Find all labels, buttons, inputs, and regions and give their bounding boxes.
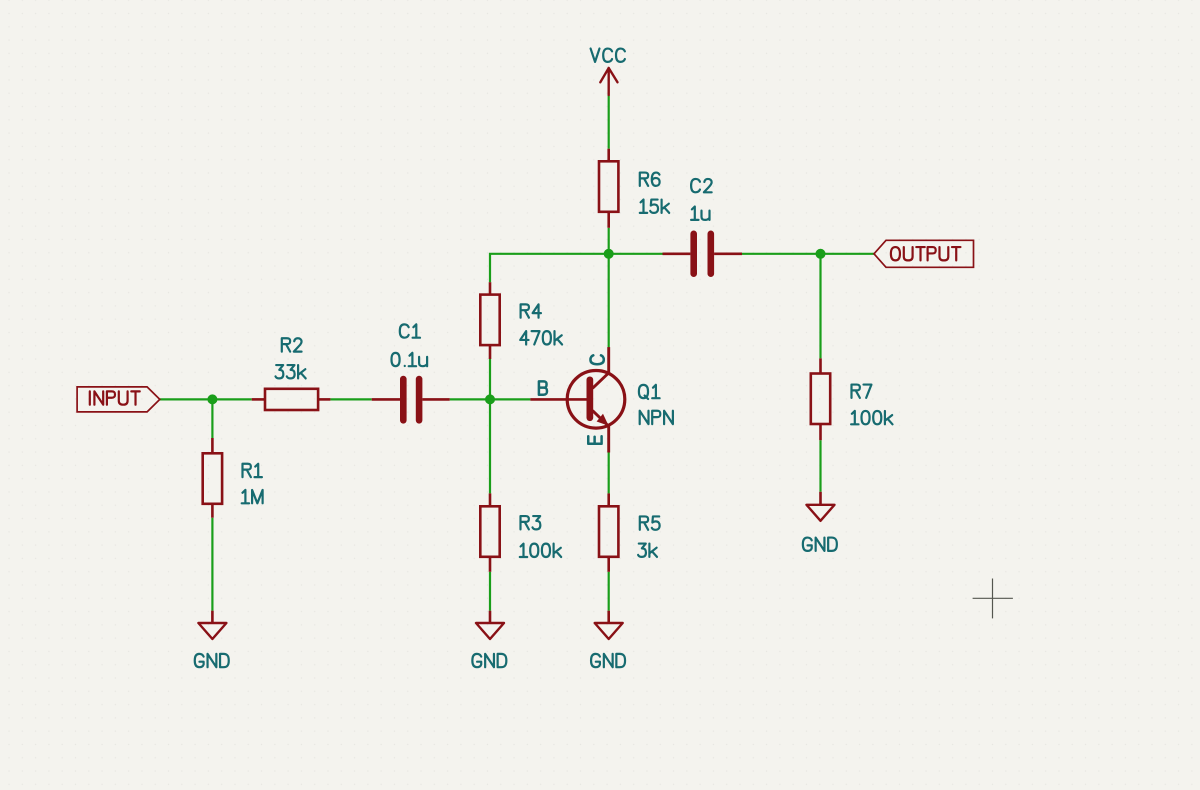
Q1 pin name E	[588, 436, 601, 444]
wire Q1 emitter to R5	[608, 453, 610, 494]
Q1 reference	[639, 385, 660, 399]
junction output node	[816, 249, 826, 259]
resistor R5	[599, 493, 660, 571]
R1 reference label	[243, 464, 262, 477]
wire output node down to R7	[819, 254, 821, 359]
capacitor C2	[663, 179, 743, 274]
R5 reference label	[640, 516, 660, 529]
global label OUTPUT	[874, 240, 974, 267]
GND net label text	[591, 654, 625, 667]
grid origin cross	[973, 579, 1013, 619]
wire R3 to GND	[489, 572, 491, 611]
wire R6 to collector node	[608, 228, 610, 254]
GND net label text	[803, 538, 837, 551]
R6 reference label	[640, 173, 660, 186]
R7 value label 100k	[851, 411, 892, 424]
Q1 emitter pin	[593, 411, 609, 453]
R4 reference label	[521, 304, 541, 317]
wire C1 to node B	[450, 398, 531, 400]
wire VCC to R6	[608, 95, 610, 149]
OUTPUT label text	[891, 247, 961, 260]
C2 value label 1u	[691, 207, 709, 220]
wire node A down to R1	[211, 399, 213, 438]
C2 reference label	[691, 179, 712, 192]
resistor R4	[480, 282, 562, 359]
ground GND (R5 emitter)	[591, 611, 625, 667]
Q1 emitter arrow	[597, 414, 609, 426]
resistor R1	[203, 438, 263, 518]
R6 value label 15k	[640, 200, 669, 213]
VCC net label text	[591, 49, 625, 62]
R3 value label 100k	[520, 544, 561, 557]
wire C2 to OUTPUT	[742, 253, 874, 255]
wire R2 to C1	[330, 398, 371, 400]
Q1 pin name B	[539, 381, 547, 394]
R3 reference label	[521, 516, 541, 529]
transistor Q1	[530, 347, 672, 452]
INPUT label text	[90, 391, 140, 404]
GND net label text	[195, 654, 229, 667]
Q1 base bar	[586, 380, 593, 418]
R2 reference label	[282, 338, 302, 351]
junction node A	[207, 394, 217, 404]
wire R1 to GND	[211, 518, 213, 611]
R2 value label 33k	[276, 365, 306, 378]
Q1 value	[640, 411, 673, 424]
ground GND (R7 output)	[803, 492, 837, 551]
resistor R3	[480, 493, 561, 571]
Q1 pin name C	[590, 355, 603, 364]
R7 reference label	[852, 385, 872, 398]
wire R4 corner to collector node to C2	[490, 254, 663, 282]
junction collector node	[604, 249, 614, 259]
ground GND (R3)	[472, 611, 506, 667]
C1 reference label	[400, 324, 420, 337]
GND net label text	[472, 654, 506, 667]
Q1 body circle	[567, 371, 625, 429]
junction node B (base)	[485, 394, 495, 404]
resistor R6	[599, 149, 669, 228]
R1 value label 1M	[242, 490, 263, 503]
power VCC	[591, 49, 625, 95]
R4 value label 470k	[520, 331, 562, 344]
wire R4 to node B	[489, 359, 491, 399]
global label INPUT	[77, 387, 160, 412]
wire node B down to R3	[489, 399, 491, 493]
wire R5 to GND	[608, 572, 610, 611]
C1 value label 0.1u	[392, 353, 428, 366]
wire R7 to GND	[819, 440, 821, 492]
R5 value label 3k	[638, 544, 657, 557]
wire collector node to Q1 collector	[608, 254, 610, 349]
wire INPUT to node A	[160, 398, 252, 400]
Q1 collector pin	[593, 347, 609, 388]
capacitor C1	[372, 324, 450, 420]
resistor R7	[811, 358, 893, 440]
resistor R2	[252, 338, 331, 410]
Q1 base pin	[530, 398, 587, 401]
ground GND (R1)	[195, 611, 229, 667]
